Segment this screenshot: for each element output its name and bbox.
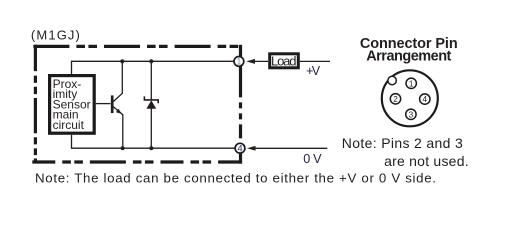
enclosure corner stem above pin 1: [239, 45, 242, 57]
svg-text:+V: +V: [306, 64, 321, 78]
junction dot top rail / collector: [120, 59, 124, 63]
svg-text:are not used.: are not used.: [384, 153, 469, 169]
sensor box label: [53, 77, 91, 132]
wire: +V supply to load: [300, 60, 330, 62]
transistor Q1 emitter: [113, 107, 123, 149]
wire: 0V to pin 4 with arrow: [253, 147, 328, 149]
wire: bottom rail from sensor box to pin 4: [72, 135, 236, 148]
connector pin 1: [406, 78, 416, 88]
dashed enclosure border left: [34, 45, 37, 164]
load box: [270, 54, 299, 68]
pin 1 circle: [234, 57, 244, 67]
svg-text:Load: Load: [271, 53, 297, 68]
zener diode D1 cathode lead: [150, 61, 152, 100]
svg-text:circuit: circuit: [53, 118, 85, 132]
wire: top rail from sensor box to pin 1: [72, 61, 235, 74]
connector keying notch: [388, 76, 396, 84]
connector pin 2: [390, 94, 400, 104]
svg-text:2: 2: [393, 95, 398, 104]
wire: sensor box to transistor base: [96, 103, 111, 105]
zener diode D1 anode lead: [150, 109, 152, 149]
junction dot bottom rail / zener: [149, 146, 153, 150]
arrowhead into pin 4: [247, 146, 256, 151]
transistor Q1 emitter arrow: [116, 109, 122, 114]
pin 4 circle: [235, 143, 245, 153]
svg-text:4: 4: [237, 144, 242, 154]
svg-text:(M1GJ): (M1GJ): [31, 27, 80, 42]
svg-text:3: 3: [409, 110, 414, 119]
transistor Q1 collector: [113, 61, 122, 101]
zener diode D1 cathode bar: [144, 96, 158, 103]
connector pin 3: [406, 109, 416, 119]
svg-text:Arrangement: Arrangement: [366, 49, 451, 65]
wire: load to pin 1 with arrow: [252, 60, 269, 62]
junction dot top rail / zener: [149, 59, 153, 63]
zener diode D1 triangle: [146, 100, 156, 109]
svg-text:1: 1: [409, 79, 414, 88]
dashed enclosure border right: [239, 66, 242, 143]
transistor Q1 base bar: [111, 95, 114, 113]
dashed enclosure border top: [33, 45, 242, 48]
junction dot bottom rail / emitter: [121, 146, 125, 150]
connector body circle: [382, 70, 438, 126]
svg-text:4: 4: [423, 95, 428, 104]
dashed enclosure border bottom: [32, 160, 242, 163]
svg-text:Note: Pins 2 and 3: Note: Pins 2 and 3: [342, 135, 463, 151]
proximity sensor main circuit box: [50, 76, 95, 134]
connector pin 4: [420, 94, 430, 104]
svg-text:Note: The load can be connecte: Note: The load can be connected to eithe…: [35, 170, 436, 185]
arrowhead into pin 1: [246, 59, 255, 64]
svg-text:1: 1: [236, 57, 241, 67]
enclosure corner stem below pin 4: [239, 153, 242, 164]
svg-text:0 V: 0 V: [303, 152, 322, 166]
